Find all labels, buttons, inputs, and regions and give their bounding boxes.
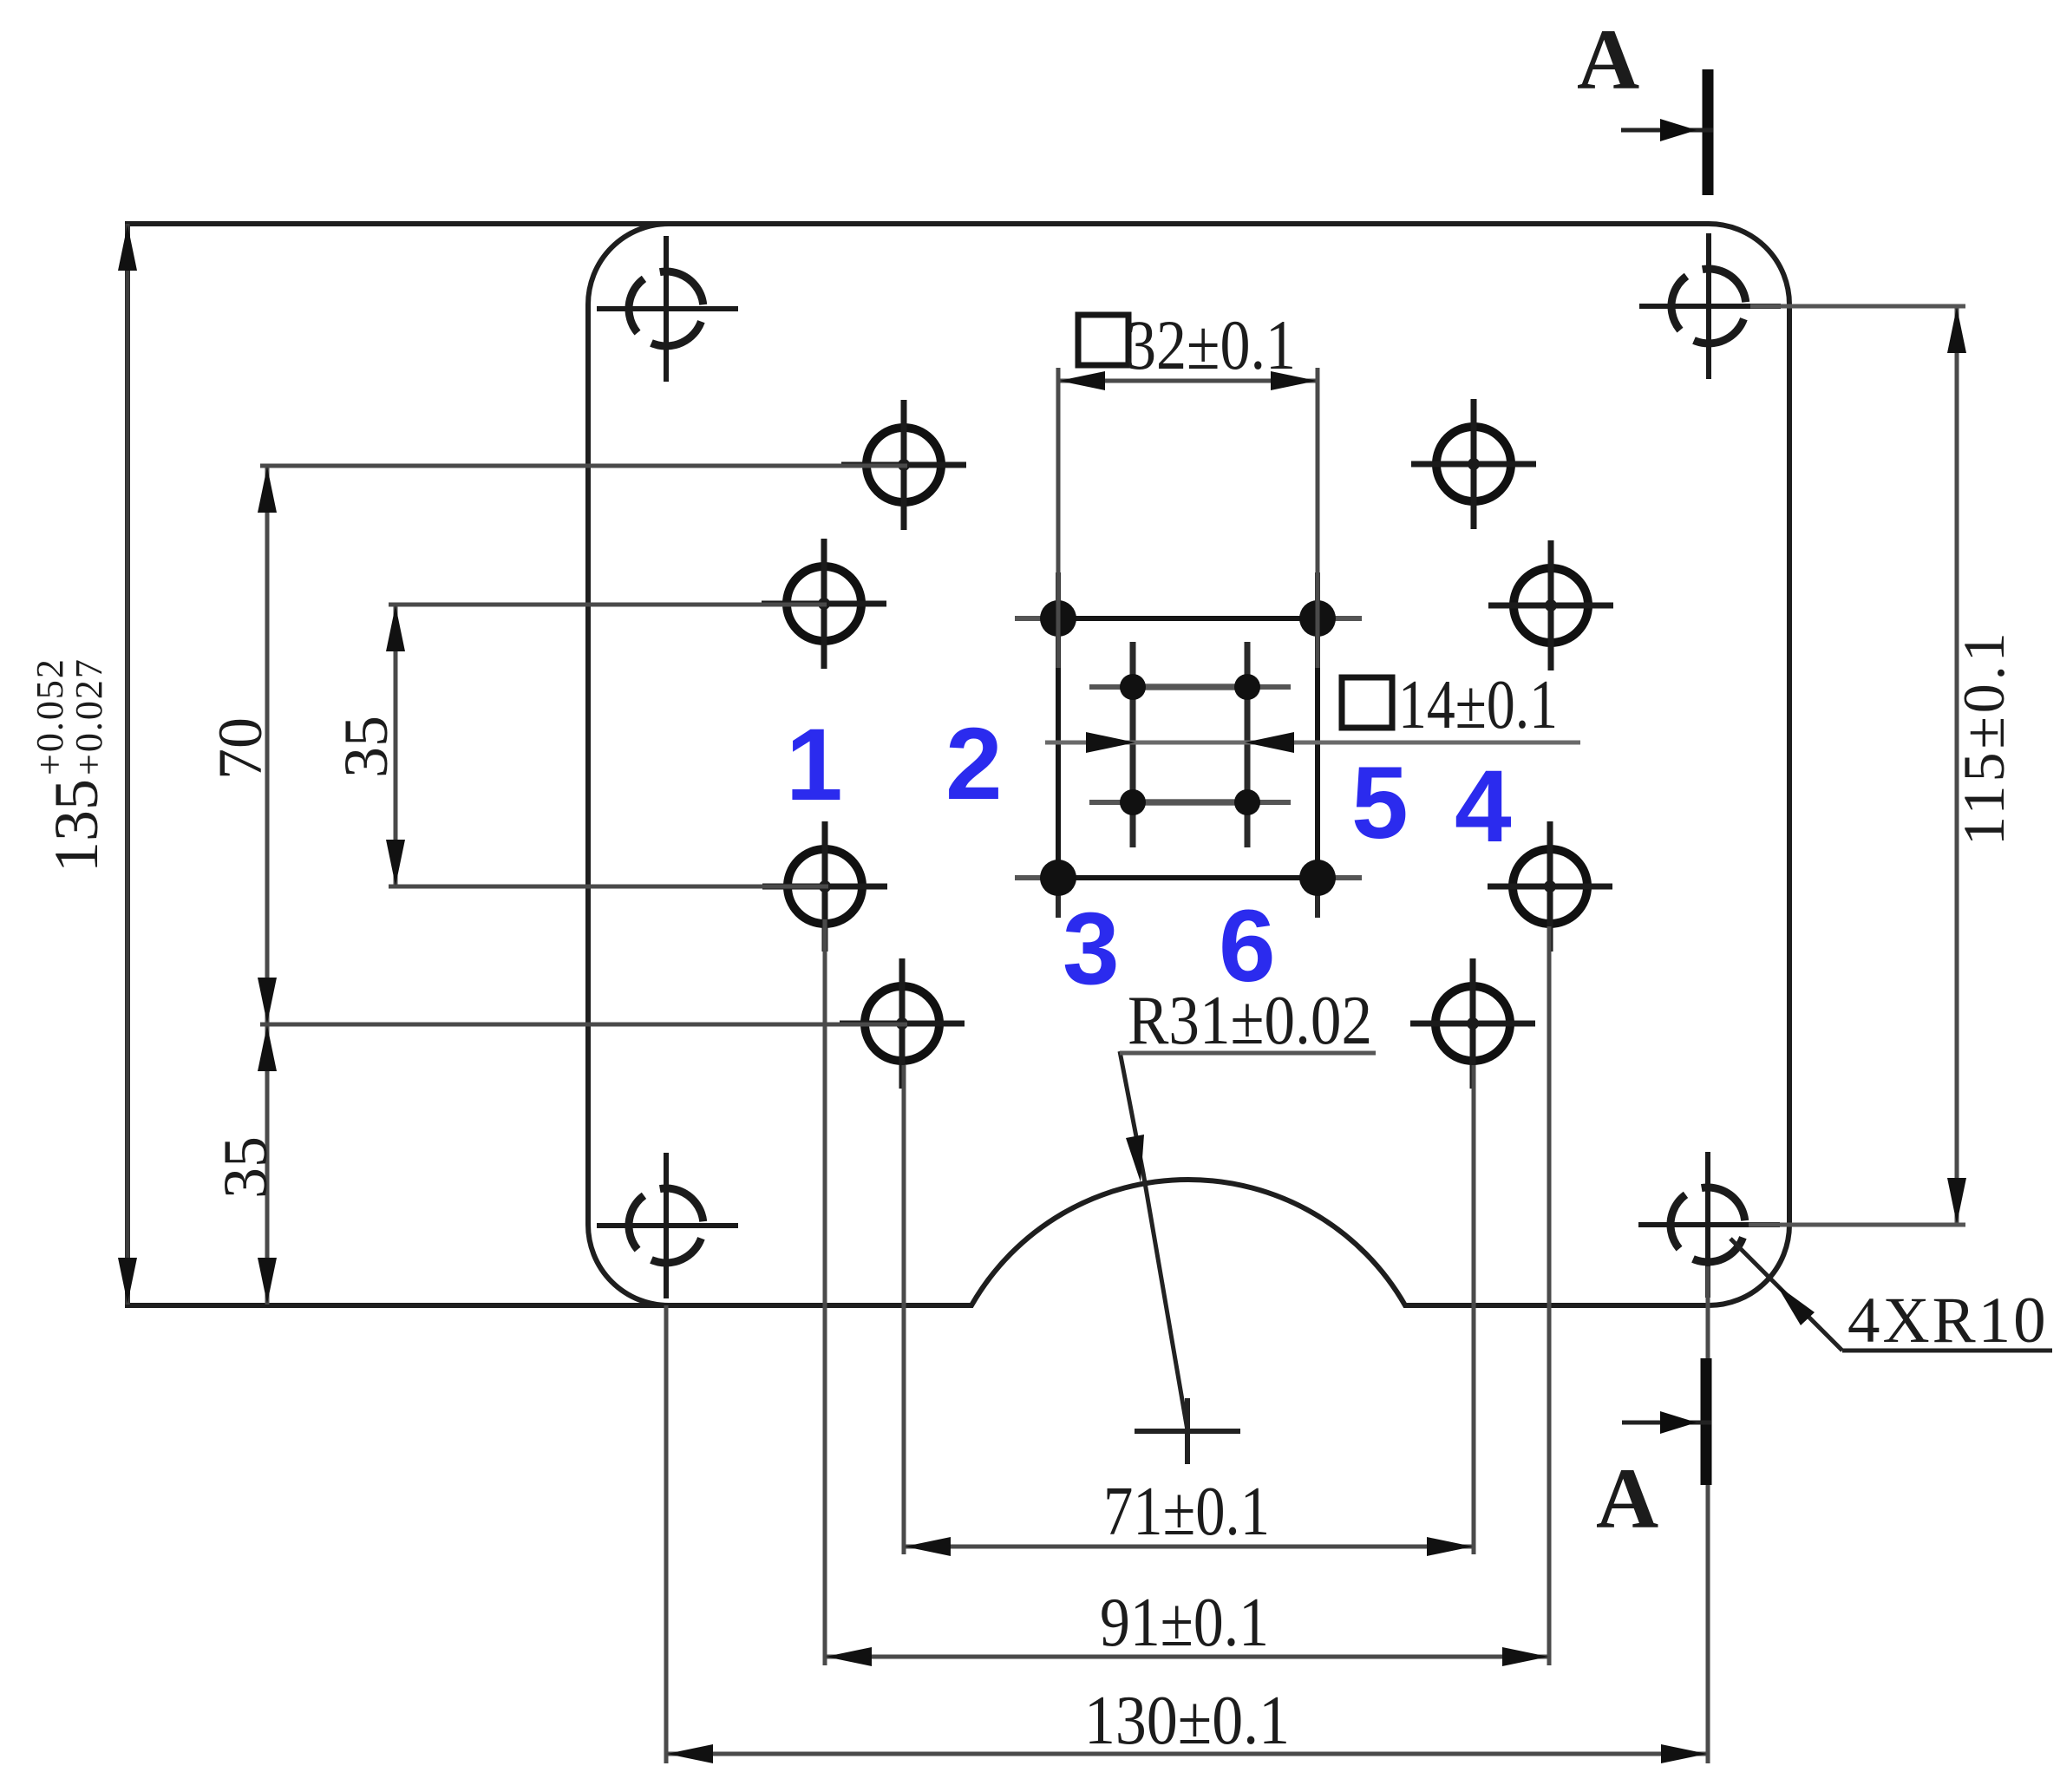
svg-text:35: 35 [331,716,401,778]
outer square 32x32 [1015,572,1362,918]
hole row1 left [841,400,966,530]
extension line row3 [389,885,828,889]
svg-text:70: 70 [206,717,275,780]
svg-text:5: 5 [1351,746,1409,860]
svg-text:71±0.1: 71±0.1 [1103,1474,1270,1550]
svg-text:130±0.1: 130±0.1 [1084,1683,1290,1759]
hole row3 left [762,821,887,952]
plate outline [128,224,1789,1305]
svg-text:6: 6 [1219,889,1276,1004]
svg-text:A: A [1596,1450,1658,1547]
corner hole bottom-left [597,1153,738,1298]
4XR10 leader and underline [1730,1239,2052,1351]
corner hole bottom-right [1638,1152,1780,1298]
dim 71 [904,1065,1474,1556]
R31 underline [1120,1051,1376,1056]
svg-text:4XR10: 4XR10 [1847,1285,2049,1357]
svg-text:35: 35 [211,1136,280,1199]
svg-text:3: 3 [1063,892,1120,1006]
svg-text:91±0.1: 91±0.1 [1100,1585,1269,1661]
svg-text:14±0.1: 14±0.1 [1398,667,1558,743]
svg-text:A: A [1577,11,1639,108]
center line of squares with 14-dim arrows [1045,732,1580,753]
label 135 +0.052 +0.027 (rotated) [29,657,111,873]
extension line row1 [260,464,907,468]
R31 leader line with arrow [1120,1051,1187,1430]
svg-text:32±0.1: 32±0.1 [1126,305,1296,384]
dim 70 / lower 35 shared vertical line [258,466,277,1305]
section mark A top [1621,69,1713,195]
dim 130 [666,1266,1708,1763]
hole row1 right [1411,399,1536,529]
svg-text:+0.027: +0.027 [68,657,110,775]
body left edge with R10 corners [588,224,669,1305]
corner hole top-left [597,236,738,382]
label square32 [1078,305,1296,384]
hole row2 left [762,539,886,669]
dim 115 vertical line right [1749,306,1966,1225]
svg-text:+0.052: +0.052 [29,657,71,775]
dim 32 horizontal line with arrows and extension lines [1058,368,1318,668]
extension line row4 [260,1023,907,1027]
hole row2 right [1488,540,1613,670]
notch center mark [1135,1398,1240,1464]
svg-text:135: 135 [42,779,111,873]
svg-text:115±0.1: 115±0.1 [1951,629,2017,846]
corner hole top-right [1639,233,1781,379]
hole row3 right [1488,821,1612,952]
section mark A bottom [1622,1358,1711,1485]
hole row4 right [1410,958,1535,1089]
svg-text:4: 4 [1455,749,1512,864]
dim upper 35 vertical line [386,605,405,886]
label square14 [1342,667,1558,743]
svg-text:1: 1 [786,708,843,822]
dim 91 [825,919,1549,1666]
inner square 14x14 [1089,642,1291,847]
dim 135 vertical line with arrows [118,224,137,1305]
hole row4 left [840,958,965,1089]
extension line row2 [389,603,827,607]
svg-text:2: 2 [945,707,1003,821]
